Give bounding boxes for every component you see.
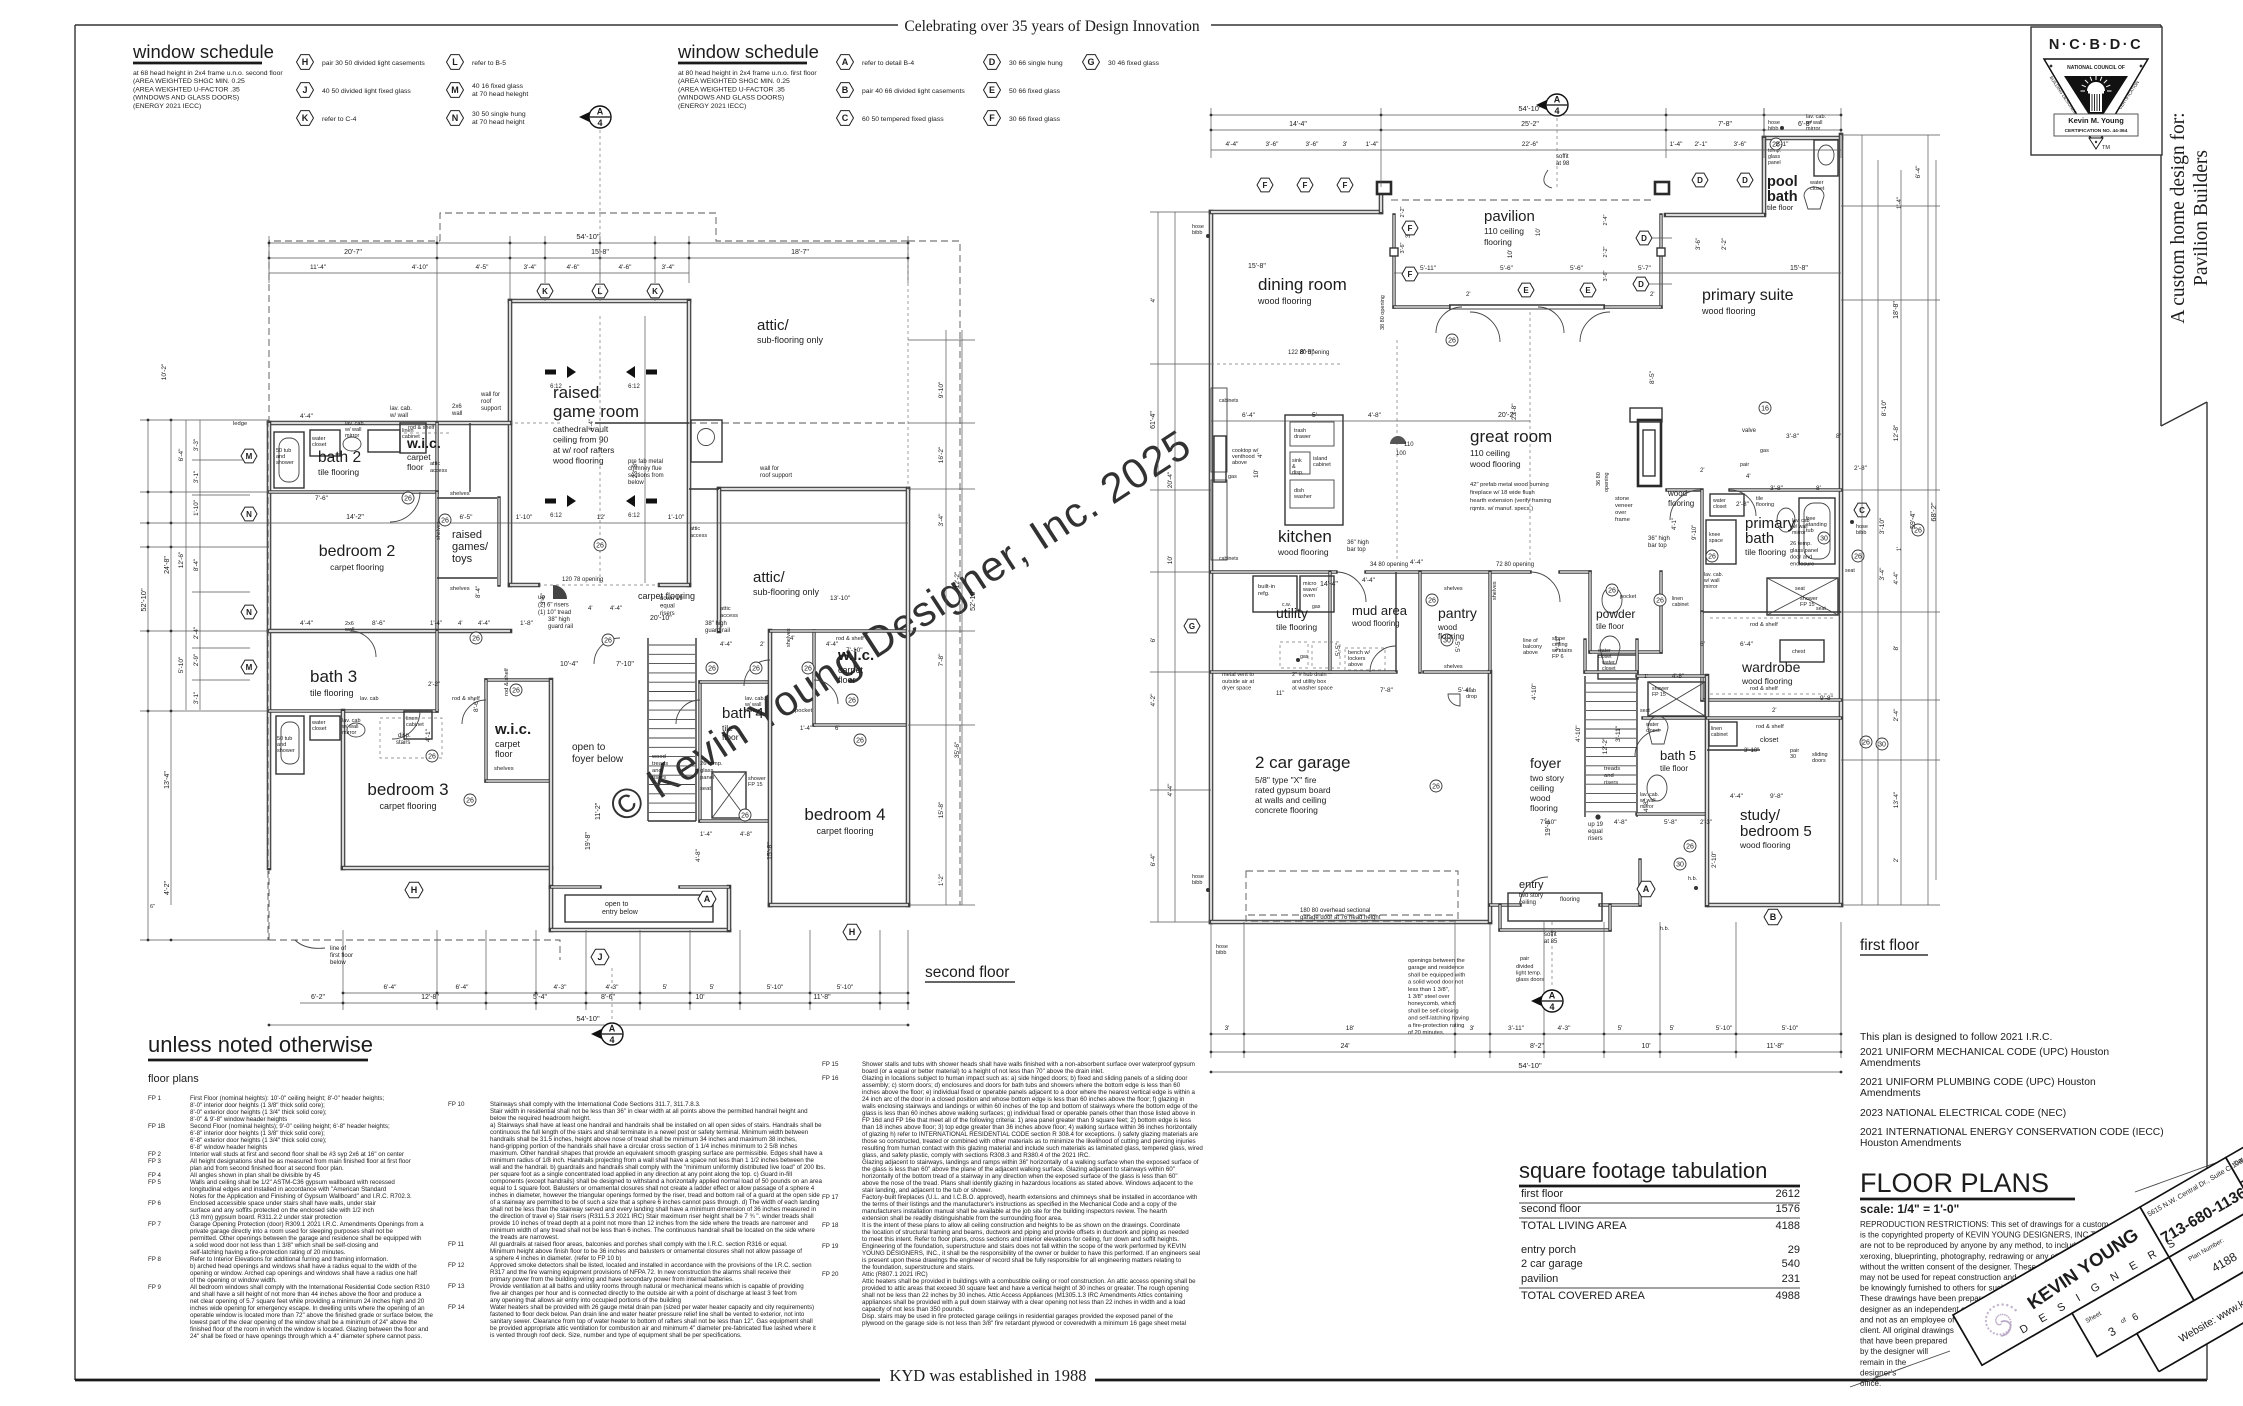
svg-text:shelves: shelves — [1444, 664, 1463, 670]
svg-text:4'-4": 4'-4" — [1226, 141, 1240, 148]
svg-text:6'-8": 6'-8" — [1798, 121, 1812, 128]
svg-text:tile floor: tile floor — [1660, 764, 1688, 773]
svg-text:14'-2": 14'-2" — [346, 514, 364, 521]
svg-text:7'-8": 7'-8" — [938, 653, 945, 667]
window tag C — [837, 111, 854, 126]
first floor left dimensions — [1157, 212, 1159, 922]
svg-text:F: F — [1408, 224, 1413, 233]
svg-text:shelves: shelves — [450, 491, 470, 497]
svg-text:than 18 inches above floor; 3): than 18 inches above floor; 3) top edge … — [862, 1124, 1198, 1131]
garage interior dashed rect — [1246, 871, 1458, 921]
svg-text:26: 26 — [708, 665, 716, 672]
svg-text:attic/: attic/ — [757, 317, 790, 334]
svg-text:3'-4": 3'-4" — [1879, 567, 1886, 581]
svg-text:treads: treads — [652, 761, 668, 767]
svg-text:risers: risers — [652, 775, 666, 781]
svg-text:above: above — [1348, 662, 1363, 668]
svg-text:Kevin M. Young: Kevin M. Young — [2068, 116, 2124, 125]
svg-text:b) arched head openings and wi: b) arched head openings and windows shal… — [190, 1263, 417, 1270]
svg-text:4988: 4988 — [1776, 1290, 1800, 1302]
svg-text:soffit: soffit — [1544, 932, 1557, 938]
svg-text:35'-6": 35'-6" — [954, 741, 961, 758]
svg-text:FP 1B: FP 1B — [148, 1123, 165, 1130]
svg-text:equal: equal — [1588, 829, 1603, 835]
svg-text:wood: wood — [1437, 623, 1457, 632]
section marker bottom right plan — [1531, 992, 1550, 1010]
svg-text:59'-4": 59'-4" — [1910, 511, 1917, 529]
svg-text:68'-2": 68'-2" — [1929, 502, 1938, 521]
svg-text:dryer space: dryer space — [1222, 686, 1251, 692]
svg-text:30: 30 — [1790, 754, 1796, 760]
svg-text:(AREA WEIGHTED SHGC MIN. 0.25: (AREA WEIGHTED SHGC MIN. 0.25 — [133, 78, 245, 85]
svg-text:space: space — [1709, 538, 1723, 544]
svg-text:4: 4 — [597, 118, 602, 128]
title block leader lines — [1850, 1351, 1950, 1387]
svg-text:10': 10' — [1167, 556, 1174, 564]
svg-text:rod & shelf: rod & shelf — [1750, 622, 1778, 628]
svg-text:N·C·B·D·C: N·C·B·D·C — [2049, 37, 2143, 53]
svg-text:bath 3: bath 3 — [310, 667, 357, 686]
svg-text:2021 INTERNATIONAL ENERGY C: 2021 INTERNATIONAL ENERGY CONSERVATION C… — [1860, 1127, 2164, 1138]
svg-text:TM: TM — [2102, 145, 2110, 151]
svg-text:12': 12' — [597, 514, 605, 521]
svg-text:FP 16d and FP 16e that meet al: FP 16d and FP 16e that meet all of the f… — [862, 1117, 1191, 1124]
svg-text:6'-4": 6'-4" — [384, 984, 398, 991]
svg-text:4': 4' — [790, 636, 794, 642]
svg-text:powder: powder — [1596, 607, 1635, 621]
svg-text:NATIONAL COUNCIL OF: NATIONAL COUNCIL OF — [2067, 65, 2125, 71]
svg-text:wood flooring: wood flooring — [1701, 306, 1756, 316]
svg-text:ceiling: ceiling — [1530, 783, 1554, 793]
svg-text:bibb: bibb — [1192, 230, 1202, 236]
svg-text:Enclosed accessible space unde: Enclosed accessible space under stairs s… — [190, 1200, 376, 1207]
svg-text:Houston Amendments: Houston Amendments — [1860, 1138, 1961, 1149]
svg-text:9'-10": 9'-10" — [938, 381, 945, 398]
svg-text:2'-8": 2'-8" — [1736, 501, 1750, 508]
svg-text:6:12: 6:12 — [628, 513, 640, 519]
svg-text:bath 2: bath 2 — [318, 449, 361, 466]
svg-text:mirror: mirror — [745, 708, 760, 714]
svg-text:4'-10": 4'-10" — [1575, 725, 1582, 742]
svg-text:closet: closet — [312, 726, 327, 732]
svg-text:60 50 tempered fixed glass: 60 50 tempered fixed glass — [862, 116, 944, 123]
svg-text:8'-9": 8'-9" — [1300, 349, 1314, 356]
svg-text:26: 26 — [1428, 597, 1436, 604]
svg-text:12'-8": 12'-8" — [1893, 424, 1900, 441]
svg-text:horizontally of the bottom tre: horizontally of the bottom tread of a st… — [862, 1173, 1178, 1180]
svg-text:M: M — [451, 85, 459, 95]
svg-text:shelves: shelves — [494, 766, 514, 772]
first floor right dimensions — [1861, 135, 1863, 905]
svg-text:8'-6": 8'-6" — [601, 994, 615, 1001]
svg-text:wood flooring: wood flooring — [1741, 676, 1793, 686]
svg-text:26: 26 — [741, 812, 749, 819]
svg-text:(WINDOWS AND GLASS DOORS): (WINDOWS AND GLASS DOORS) — [678, 95, 784, 102]
svg-text:carpet flooring: carpet flooring — [330, 562, 384, 572]
svg-text:1576: 1576 — [1776, 1203, 1800, 1215]
svg-text:FP 12: FP 12 — [448, 1262, 465, 1269]
svg-text:2': 2' — [1700, 468, 1704, 474]
svg-text:4'-8": 4'-8" — [1368, 412, 1382, 419]
svg-text:ledge: ledge — [233, 421, 247, 427]
svg-text:9'-8": 9'-8" — [1770, 793, 1784, 800]
svg-text:glass: glass — [700, 768, 714, 774]
svg-text:34 80 opening: 34 80 opening — [1370, 562, 1408, 568]
second floor left dimensions — [147, 420, 149, 940]
svg-text:2'-3": 2'-3" — [1700, 820, 1712, 826]
window tag E — [984, 83, 1001, 98]
svg-text:divided: divided — [1516, 964, 1533, 970]
window tag K — [297, 111, 314, 126]
first floor door arcs — [1470, 312, 1500, 342]
svg-text:minimum radius of 1/8 inch. H: minimum radius of 1/8 inch. Handrails pr… — [490, 1157, 815, 1164]
svg-text:5': 5' — [1618, 1025, 1623, 1032]
svg-text:26: 26 — [1448, 337, 1456, 344]
svg-text:support: support — [481, 406, 501, 412]
svg-text:great room: great room — [1470, 427, 1552, 446]
svg-text:8'-6": 8'-6" — [473, 698, 480, 712]
svg-text:4'-3": 4'-3" — [554, 984, 568, 991]
svg-text:4'-2": 4'-2" — [1150, 693, 1157, 707]
svg-text:40 50 divided light fixed glas: 40 50 divided light fixed glass — [322, 88, 411, 95]
svg-text:wood flooring: wood flooring — [1257, 296, 1312, 306]
svg-text:Walls and ceiling shall be 1/2: Walls and ceiling shall be 1/2" ASTM-C36… — [190, 1179, 395, 1186]
svg-text:A: A — [704, 894, 711, 904]
svg-text:entry: entry — [1519, 879, 1544, 891]
svg-text:bedroom 5: bedroom 5 — [1740, 823, 1812, 840]
svg-text:3': 3' — [1343, 141, 1348, 148]
svg-text:bath 5: bath 5 — [1660, 748, 1696, 763]
bath5 shower — [1648, 682, 1705, 716]
svg-text:52'-10": 52'-10" — [139, 588, 148, 612]
svg-text:resulting from human contact w: resulting from human contact with this g… — [862, 1145, 1203, 1152]
svg-text:11": 11" — [1276, 691, 1284, 697]
svg-text:F: F — [1408, 270, 1413, 279]
svg-text:shower: shower — [276, 460, 294, 466]
svg-text:private garage directly into a: private garage directly into a room used… — [190, 1228, 393, 1235]
svg-text:4'-1": 4'-1" — [1672, 518, 1678, 530]
svg-text:26: 26 — [1708, 553, 1716, 560]
svg-text:wood flooring: wood flooring — [1351, 619, 1400, 628]
svg-text:540: 540 — [1782, 1258, 1800, 1270]
svg-text:tile flooring: tile flooring — [1276, 622, 1317, 632]
svg-text:2'-2": 2'-2" — [1400, 206, 1406, 217]
svg-text:entry below: entry below — [602, 909, 639, 916]
first floor front wall row — [1436, 307, 1462, 333]
svg-text:refer to C-4: refer to C-4 — [322, 116, 357, 123]
title block band — [1953, 905, 2243, 1406]
svg-text:the location of structural fra: the location of structural framing and b… — [862, 1229, 1189, 1236]
svg-text:below the required headroom he: below the required headroom height. — [490, 1115, 591, 1122]
svg-text:TOTAL LIVING AREA: TOTAL LIVING AREA — [1521, 1220, 1627, 1232]
svg-text:6'-4": 6'-4" — [178, 448, 185, 462]
svg-text:2': 2' — [1772, 708, 1776, 714]
svg-text:24" shall be fixed or have ope: 24" shall be fixed or have openings thro… — [190, 1333, 422, 1340]
svg-text:sanitary sewer. Clearance from: sanitary sewer. Clearance from top of wa… — [490, 1318, 813, 1325]
svg-text:4'-6": 4'-6" — [567, 264, 581, 271]
svg-text:tile flooring: tile flooring — [1745, 547, 1786, 557]
svg-text:54'-10": 54'-10" — [576, 1014, 600, 1023]
svg-text:shall not be less than the sta: shall not be less than the stairway serv… — [490, 1206, 817, 1213]
svg-text:remain in the: remain in the — [1860, 1358, 1907, 1367]
svg-text:guard rail: guard rail — [705, 628, 730, 634]
svg-text:16'-2": 16'-2" — [938, 446, 945, 463]
svg-text:8': 8' — [1816, 485, 1821, 492]
great room firebox — [1630, 408, 1662, 422]
svg-text:6'-4": 6'-4" — [1150, 853, 1157, 867]
svg-text:first floor: first floor — [1860, 937, 1919, 954]
svg-text:26: 26 — [512, 687, 520, 694]
svg-text:at 98: at 98 — [1556, 161, 1570, 167]
svg-text:Stair width in residential sha: Stair width in residential shall not be … — [490, 1108, 808, 1115]
svg-text:8'-0" & 9'-8" window header he: 8'-0" & 9'-8" window header heights — [190, 1116, 287, 1123]
svg-text:4': 4' — [458, 621, 462, 627]
svg-text:2'-2": 2'-2" — [1603, 246, 1609, 257]
svg-text:26: 26 — [848, 697, 856, 704]
svg-text:bar top: bar top — [1347, 547, 1366, 553]
svg-text:3'-11": 3'-11" — [1508, 1025, 1525, 1032]
svg-text:flooring: flooring — [1668, 499, 1694, 508]
svg-text:1'-8": 1'-8" — [520, 620, 534, 627]
svg-text:3'-6": 3'-6" — [541, 593, 547, 605]
svg-text:6'-2": 6'-2" — [311, 994, 325, 1001]
svg-text:1'-4": 1'-4" — [800, 726, 812, 732]
svg-text:extension shall be readily dis: extension shall be readily distinguishab… — [862, 1215, 1063, 1222]
svg-text:opening or window. Arched cap: opening or window. Arched cap openings a… — [190, 1270, 417, 1277]
svg-text:inches in diameter, however th: inches in diameter, however the triangul… — [490, 1192, 820, 1199]
svg-text:flooring: flooring — [1756, 502, 1774, 508]
svg-text:and utility box: and utility box — [1292, 679, 1326, 685]
svg-text:FP 19: FP 19 — [822, 1243, 839, 1250]
svg-text:pocket: pocket — [1620, 594, 1637, 600]
svg-text:first floor: first floor — [330, 953, 353, 959]
svg-text:shelves: shelves — [1444, 586, 1463, 592]
svg-text:closet: closet — [312, 442, 327, 448]
svg-text:Amendments: Amendments — [1860, 1088, 1921, 1099]
svg-text:38" high: 38" high — [705, 621, 727, 627]
svg-text:floor plans: floor plans — [148, 1073, 199, 1085]
water closet above stairs — [1583, 640, 1586, 672]
svg-text:bedroom 4: bedroom 4 — [804, 805, 885, 824]
svg-text:plan and from second finished: plan and from second finished floor at s… — [190, 1165, 344, 1172]
door arcs left plan — [390, 492, 420, 522]
svg-text:4'-8": 4'-8" — [1672, 674, 1684, 680]
svg-text:wood: wood — [1667, 489, 1687, 498]
svg-text:FP 11: FP 11 — [448, 1241, 464, 1248]
section marker top left plan — [579, 108, 598, 126]
svg-text:stone: stone — [1615, 496, 1629, 502]
entry porch first floor — [1498, 905, 1501, 930]
svg-text:A: A — [1549, 991, 1556, 1001]
svg-text:cathedral vault: cathedral vault — [553, 424, 609, 434]
svg-text:36 80: 36 80 — [1596, 472, 1602, 486]
svg-text:fireplace w/ 18 wide flush: fireplace w/ 18 wide flush — [1470, 490, 1535, 496]
svg-text:glass is less than 60 inches a: glass is less than 60 inches above walki… — [862, 1110, 1196, 1117]
svg-text:FP 9: FP 9 — [148, 1284, 162, 1291]
svg-text:3'-4": 3'-4" — [938, 513, 945, 527]
chimney box — [691, 420, 722, 462]
svg-text:bibb: bibb — [1216, 950, 1226, 956]
svg-text:40 16 fixed glass: 40 16 fixed glass — [472, 83, 524, 90]
bedroom4 walls — [770, 903, 908, 908]
svg-text:the direction of travel e) St: the direction of travel e) Stair risers … — [490, 1213, 814, 1220]
svg-text:to meet this intent. Refer to: to meet this intent. Refer to floor plan… — [862, 1236, 1179, 1243]
svg-text:First Floor (nominal heights):: First Floor (nominal heights): 10'-0" ce… — [190, 1095, 384, 1102]
svg-text:50 66 fixed glass: 50 66 fixed glass — [1009, 88, 1061, 95]
svg-text:(13 mm) gypsum board. R311.2.2: (13 mm) gypsum board. R311.2.2 under sta… — [190, 1214, 342, 1221]
svg-text:8'-2": 8'-2" — [1530, 1043, 1544, 1050]
open to entry porch — [549, 887, 554, 930]
svg-text:be provided appropriate attic: be provided appropriate attic ventilatio… — [490, 1325, 816, 1332]
svg-text:26: 26 — [466, 797, 474, 804]
svg-text:It is the intent of these plan: It is the intent of these plans to allow… — [862, 1222, 1181, 1229]
svg-text:2'-4": 2'-4" — [1893, 708, 1900, 722]
svg-text:10': 10' — [695, 994, 704, 1001]
svg-text:FP 18: FP 18 — [822, 1222, 839, 1229]
svg-text:bibb: bibb — [1768, 126, 1778, 132]
svg-text:mud area: mud area — [1352, 603, 1408, 618]
svg-text:(ENERGY 2021 IECC): (ENERGY 2021 IECC) — [133, 103, 201, 110]
svg-text:the treads are narrowest.: the treads are narrowest. — [490, 1234, 559, 1241]
svg-text:equal to 1 square foot. Balust: equal to 1 square foot. Balusters or orn… — [490, 1185, 815, 1192]
svg-text:foyer: foyer — [1530, 755, 1561, 771]
svg-text:G: G — [1189, 622, 1195, 631]
wardrobe walls — [1702, 698, 1841, 701]
svg-text:6'-4": 6'-4" — [1740, 641, 1754, 648]
svg-text:FP 1: FP 1 — [148, 1095, 162, 1102]
svg-text:K: K — [542, 287, 548, 296]
svg-text:below: below — [330, 960, 346, 966]
first floor stairs — [1584, 676, 1586, 817]
svg-text:26: 26 — [1862, 739, 1870, 746]
svg-text:10': 10' — [1536, 228, 1542, 236]
svg-text:the terms of their listings an: the terms of their listings and the manu… — [862, 1201, 1177, 1208]
kitchen island — [1285, 415, 1343, 525]
svg-text:wall: wall — [344, 627, 354, 633]
svg-text:open to: open to — [605, 901, 628, 908]
svg-text:2': 2' — [760, 642, 764, 648]
svg-text:D: D — [1641, 234, 1647, 243]
svg-text:26: 26 — [596, 542, 604, 549]
svg-text:8': 8' — [1893, 646, 1900, 651]
svg-text:Engineering of the foundation,: Engineering of the foundation, superstru… — [862, 1243, 1186, 1250]
svg-text:1'-10": 1'-10" — [668, 514, 685, 521]
svg-text:36" high: 36" high — [1648, 536, 1670, 542]
svg-text:continuous the full length of: continuous the full length of the stairs… — [490, 1129, 809, 1136]
wic right walls — [812, 631, 815, 725]
svg-text:26: 26 — [404, 495, 412, 502]
svg-text:mirror: mirror — [1792, 530, 1806, 536]
circle tags right plan — [1446, 334, 1458, 346]
svg-text:25'-2": 25'-2" — [1521, 121, 1539, 128]
svg-text:2'-1": 2'-1" — [1776, 141, 1790, 148]
svg-text:K: K — [652, 287, 658, 296]
svg-text:is vented through roof deck. S: is vented through roof deck. Size, numbe… — [490, 1332, 742, 1339]
svg-text:outside air at: outside air at — [1222, 679, 1254, 685]
svg-text:26: 26 — [1656, 597, 1664, 604]
svg-text:a sphere 4 inches in diameter.: a sphere 4 inches in diameter. (refer to… — [490, 1255, 621, 1262]
svg-text:4'-4": 4'-4" — [826, 642, 838, 648]
svg-text:11'-8": 11'-8" — [813, 994, 831, 1001]
svg-text:19'-8": 19'-8" — [585, 832, 592, 850]
svg-text:tile flooring: tile flooring — [310, 688, 354, 698]
svg-text:5': 5' — [1670, 1025, 1675, 1032]
svg-text:assembly; c) storm doors; d) e: assembly; c) storm doors; d) enclosures … — [862, 1082, 1181, 1089]
svg-text:wood flooring: wood flooring — [1277, 547, 1329, 557]
svg-text:surface and any soffits protec: surface and any soffits protected on the… — [190, 1207, 374, 1214]
first floor exterior walls — [1209, 212, 1214, 922]
svg-text:3'-11": 3'-11" — [1555, 635, 1562, 652]
svg-text:KYD was established in 1988: KYD was established in 1988 — [889, 1366, 1086, 1385]
svg-text:12'-6": 12'-6" — [178, 551, 185, 568]
svg-text:a fire-protection rating: a fire-protection rating — [1408, 1023, 1464, 1029]
svg-text:Water heaters shall be provide: Water heaters shall be provided with 26 … — [490, 1304, 814, 1311]
second floor right dimensions — [945, 330, 947, 905]
attic lower-right walls — [719, 487, 908, 492]
svg-text:12'-2": 12'-2" — [1602, 737, 1609, 754]
svg-text:8'-0" exterior door heights (1: 8'-0" exterior door heights (1 3/4" thic… — [190, 1109, 327, 1116]
svg-text:pavilion: pavilion — [1521, 1273, 1558, 1285]
svg-text:18'-7": 18'-7" — [791, 249, 809, 256]
svg-text:26 temp.: 26 temp. — [700, 761, 723, 767]
circle tags left plan — [402, 492, 414, 504]
svg-text:2'-1": 2'-1" — [1695, 141, 1709, 148]
window tags above game room — [537, 284, 553, 298]
svg-text:FP 20: FP 20 — [822, 1271, 839, 1278]
second floor exterior walls — [510, 299, 689, 304]
svg-text:26: 26 — [1608, 587, 1616, 594]
svg-text:3'-8": 3'-8" — [1786, 433, 1800, 440]
svg-text:15'-8": 15'-8" — [1790, 265, 1808, 272]
svg-text:doors: doors — [1812, 758, 1826, 764]
svg-text:second floor: second floor — [1521, 1203, 1581, 1215]
svg-text:30 46 fixed glass: 30 46 fixed glass — [1108, 60, 1160, 67]
svg-text:risers: risers — [1604, 780, 1618, 786]
svg-text:bibb: bibb — [1192, 880, 1202, 886]
svg-text:30: 30 — [1878, 741, 1886, 748]
svg-text:FP 15: FP 15 — [822, 1061, 839, 1068]
svg-text:attic: attic — [430, 461, 440, 467]
svg-text:unless noted otherwise: unless noted otherwise — [148, 1032, 373, 1057]
slab drop — [1448, 694, 1460, 706]
svg-text:L: L — [452, 57, 458, 67]
svg-text:D: D — [1638, 280, 1644, 289]
svg-text:30 66 single hung: 30 66 single hung — [1009, 60, 1063, 67]
svg-text:1'-4": 1'-4" — [1897, 197, 1903, 209]
svg-text:gas: gas — [1228, 474, 1237, 480]
svg-text:B: B — [1770, 912, 1777, 922]
svg-text:4'-4": 4'-4" — [300, 620, 314, 627]
bath2 fixtures — [274, 432, 304, 488]
svg-text:All bedroom windows shall comp: All bedroom windows shall comply with th… — [190, 1284, 430, 1291]
svg-text:10': 10' — [1641, 1043, 1650, 1050]
svg-text:walls enclosing stairways and: walls enclosing stairways and landings o… — [861, 1103, 1198, 1110]
svg-text:FP 6: FP 6 — [1552, 654, 1564, 660]
svg-text:26: 26 — [472, 635, 480, 642]
svg-text:2'-2": 2'-2" — [1722, 238, 1728, 250]
svg-text:H: H — [411, 885, 418, 895]
svg-text:FP 8: FP 8 — [148, 1256, 162, 1263]
svg-text:tile floor: tile floor — [1596, 622, 1624, 631]
svg-text:5': 5' — [710, 984, 715, 991]
svg-text:18'-8": 18'-8" — [1893, 301, 1900, 319]
svg-text:5'-4": 5'-4" — [1458, 687, 1472, 694]
svg-text:wall and the handrail. b) guar: wall and the handrail. b) guardrails and… — [489, 1164, 826, 1171]
svg-text:garage door at 76 head height: garage door at 76 head height — [1300, 915, 1381, 921]
svg-text:Shower stalls and tubs with sh: Shower stalls and tubs with shower heads… — [862, 1061, 1195, 1068]
svg-text:rod & shelf: rod & shelf — [1756, 724, 1784, 730]
svg-text:pool: pool — [1767, 174, 1798, 190]
